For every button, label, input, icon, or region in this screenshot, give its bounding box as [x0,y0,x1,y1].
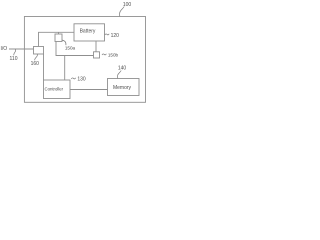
leader for 140 [117,71,121,79]
switch 150b [94,52,100,58]
controller box 130 [44,80,71,99]
svg-text:130: 130 [77,77,86,83]
wire battery to node [39,32,75,46]
wire 160 to controller [43,54,45,80]
outer device box 100 [24,17,145,103]
leader for 100 [120,7,125,17]
battery box 120 [74,24,105,41]
leader for 150a [62,40,66,45]
svg-text:140: 140 [118,66,127,72]
wire bus to controller [64,56,66,81]
component 160 [34,47,44,55]
wire controller to memory [70,89,108,91]
svg-text:150b: 150b [108,53,119,58]
wire battery to 150b [95,41,97,52]
tilde for 130 [71,78,75,79]
tilde for 120 [105,34,109,35]
svg-text:Battery: Battery [80,29,96,35]
svg-text:160: 160 [31,61,40,67]
switch 150a [55,34,62,42]
svg-text:150a: 150a [65,46,76,51]
wire stub to switch 150a [58,32,60,34]
leader for 160 [35,54,38,60]
svg-text:100: 100 [123,2,132,8]
memory box 140 [108,79,140,96]
svg-text:Controller: Controller [44,86,63,91]
svg-text:Memory: Memory [113,85,132,91]
tilde for 150b [102,54,106,55]
svg-text:I/O: I/O [0,46,7,52]
svg-text:110: 110 [10,56,18,62]
leader for 110 [14,49,16,55]
wire 150a to bus [56,42,94,56]
svg-text:120: 120 [111,33,120,39]
wire I/O line [9,48,34,50]
